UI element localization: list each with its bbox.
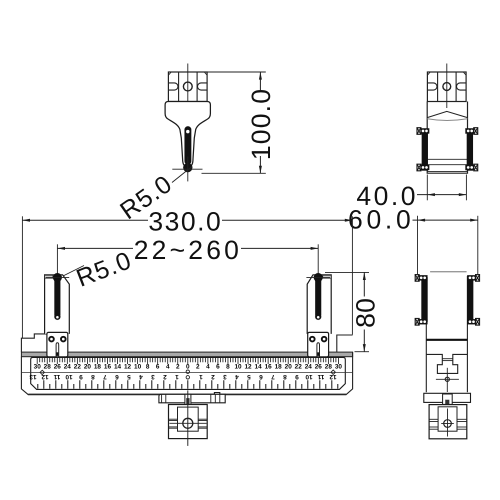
beam left jaw [21, 334, 46, 352]
side bracket thick line [426, 339, 467, 341]
svg-text:7: 7 [103, 373, 107, 380]
side bracket T-slot [426, 354, 467, 373]
post pin bottom hole [56, 316, 59, 319]
svg-text:14: 14 [255, 364, 263, 371]
side bracket base block [429, 405, 467, 439]
dim 60.0 extension line left [417, 216, 419, 275]
svg-text:2: 2 [163, 373, 167, 380]
side view bottom plate lines [427, 158, 467, 160]
side foot bottom-right [476, 319, 480, 326]
dim 330.0 line and arrows [22, 219, 148, 221]
post pin crosshair [306, 277, 330, 279]
post body left [45, 275, 70, 334]
svg-text:28: 28 [325, 364, 333, 371]
svg-text:4: 4 [139, 373, 143, 380]
rail foot bottom-right [474, 164, 478, 171]
leader R5.0 posts [49, 266, 84, 284]
post top tab left [45, 275, 53, 278]
leader R5.0 top [172, 167, 192, 183]
bracket circle front [183, 418, 193, 428]
dim 330.0 extension line left [21, 216, 23, 338]
pin slot top hole [186, 130, 189, 133]
post pin crosshair [46, 277, 70, 279]
ruler top scale ticks [37, 358, 338, 364]
svg-text:30: 30 [335, 364, 343, 371]
svg-text:12: 12 [124, 364, 132, 371]
svg-text:11: 11 [317, 373, 324, 380]
dim 22~260 extension line left [56, 244, 58, 277]
svg-text:26: 26 [54, 364, 62, 371]
svg-text:3: 3 [151, 373, 155, 380]
beam top band (gray) [21, 352, 352, 357]
post base holes [310, 337, 315, 342]
svg-text:13: 13 [29, 373, 37, 380]
clamp slide pin slot (black) [185, 126, 192, 165]
svg-text:2: 2 [196, 364, 200, 371]
svg-text:4: 4 [235, 373, 239, 380]
svg-text:5: 5 [247, 373, 251, 380]
bracket flange bar front [159, 393, 225, 403]
side view head inner columns [437, 72, 439, 102]
dim 40.0 line and arrows [417, 194, 466, 196]
clamp head left notch [168, 83, 178, 90]
side view head right notch [457, 83, 467, 90]
bracket right grooves front [198, 418, 207, 420]
clamp head corner chamfers [168, 72, 171, 75]
svg-text:22: 22 [295, 364, 303, 371]
dim 80 line and arrows [363, 272, 365, 296]
dim 40.0 extension lines [426, 175, 428, 201]
bracket screw tab front [185, 394, 191, 404]
dim 80 extension line bottom [355, 351, 370, 353]
side bracket screw tab [443, 394, 453, 404]
post pin bottom hole [317, 316, 320, 319]
ruler center ring upper [186, 370, 189, 373]
svg-text:8: 8 [91, 373, 95, 380]
rail bar left (side view top) [422, 130, 428, 171]
svg-text:8: 8 [226, 364, 230, 371]
svg-text:9: 9 [295, 373, 299, 380]
clamp head body front [168, 72, 207, 102]
bracket flange notch lines [161, 394, 163, 403]
svg-text:3: 3 [223, 373, 227, 380]
post pin (black) [54, 275, 60, 316]
svg-text:20: 20 [285, 364, 293, 371]
svg-text:11: 11 [53, 373, 60, 380]
post pin (black) [315, 275, 321, 316]
side foot top-left [415, 275, 419, 282]
dim 100.0 extension line top [207, 71, 266, 73]
dim 100.0 line and arrows [259, 72, 261, 90]
clamp head screw hole front [183, 82, 192, 91]
side bracket left grooves [429, 418, 438, 420]
beam right jaw [337, 335, 353, 352]
dim 60.0 line and arrows [413, 219, 478, 221]
svg-text:18: 18 [275, 364, 283, 371]
side bracket base crosshair [441, 423, 454, 425]
svg-text:1: 1 [199, 373, 203, 380]
dim 330.0 extension line right [351, 216, 353, 334]
side foot top-right [476, 275, 480, 282]
bracket left grooves front [169, 418, 178, 420]
side bracket flange [424, 393, 471, 402]
post top tab right [323, 275, 332, 278]
svg-text:10: 10 [305, 373, 313, 380]
post base slot [56, 343, 59, 357]
svg-text:60.0: 60.0 [348, 204, 414, 234]
svg-text:8: 8 [283, 373, 287, 380]
svg-text:10: 10 [65, 373, 73, 380]
post base left [47, 332, 68, 356]
side bracket top bar (gray) [430, 271, 467, 273]
svg-text:12: 12 [244, 364, 252, 371]
post base slot [317, 343, 320, 357]
svg-text:18: 18 [94, 364, 102, 371]
side view head screw hole [443, 83, 451, 91]
side foot bottom-left [415, 319, 419, 326]
svg-text:16: 16 [265, 364, 273, 371]
side bracket base circle [444, 420, 452, 428]
ruler bottom scale ticks [38, 380, 338, 389]
svg-text:100.0: 100.0 [246, 88, 276, 160]
dim 22~260 extension line right [317, 244, 319, 277]
svg-text:4: 4 [166, 364, 170, 371]
ruler top scale numbers [34, 364, 343, 371]
dim 60.0 extension line right [477, 216, 479, 275]
svg-text:24: 24 [64, 364, 72, 371]
svg-text:330.0: 330.0 [148, 206, 222, 236]
svg-text:7: 7 [271, 373, 275, 380]
svg-text:2: 2 [176, 364, 180, 371]
rail bar right (side view bottom) [467, 277, 473, 322]
svg-text:28: 28 [44, 364, 52, 371]
clamp head right notch [198, 83, 208, 90]
svg-text:26: 26 [315, 364, 323, 371]
post body right [307, 275, 331, 334]
beam body sides [21, 352, 352, 395]
side view body outline [427, 102, 467, 174]
dim 22~260 line and arrows [57, 247, 133, 249]
svg-text:30: 30 [34, 364, 42, 371]
svg-text:20: 20 [84, 364, 92, 371]
svg-text:10: 10 [134, 364, 142, 371]
svg-text:2: 2 [211, 373, 215, 380]
svg-text:16: 16 [104, 364, 112, 371]
side bracket small circle [445, 377, 449, 381]
svg-text:6: 6 [259, 373, 263, 380]
side view head left notch [427, 83, 437, 90]
ruler center ring lower [186, 376, 189, 379]
svg-text:10: 10 [234, 364, 242, 371]
svg-text:22: 22 [74, 364, 82, 371]
stem tip crosshair [172, 168, 202, 170]
svg-text:80: 80 [350, 298, 380, 328]
svg-text:6: 6 [156, 364, 160, 371]
rail foot top-left [417, 128, 421, 135]
svg-text:24: 24 [305, 364, 313, 371]
post base right [308, 332, 329, 356]
ruler left diamond marker [40, 370, 44, 374]
side bracket inner rect [438, 407, 457, 431]
centerline clamp front view [187, 64, 189, 131]
clamp body flange and stem outline [165, 102, 210, 168]
rail foot top-right [474, 128, 478, 135]
side view chevron spring [427, 111, 467, 117]
svg-text:8: 8 [146, 364, 150, 371]
svg-text:14: 14 [114, 364, 122, 371]
side view head corner chamfers [427, 72, 430, 75]
side bracket body sides [425, 276, 427, 392]
bracket block front [169, 405, 208, 439]
rail foot bottom-left [417, 164, 421, 171]
svg-text:5: 5 [127, 373, 131, 380]
rail bar right (side view top) [467, 130, 473, 171]
svg-text:0: 0 [186, 364, 190, 371]
dim 80 extension line top [325, 271, 369, 273]
centerline side view top [446, 64, 448, 109]
side bracket crosshair [436, 378, 459, 380]
svg-text:6: 6 [216, 364, 220, 371]
side view head body [427, 72, 466, 102]
ruler bottom scale numbers (flipped) [29, 373, 337, 380]
svg-text:4: 4 [206, 364, 210, 371]
ruler mid line [21, 371, 352, 373]
ruler plate [31, 357, 346, 389]
side bracket T-slot neck lines [442, 358, 453, 360]
svg-text:1: 1 [175, 373, 179, 380]
post base holes [49, 337, 54, 342]
bracket crosshair front [170, 422, 207, 424]
svg-text:9: 9 [79, 373, 83, 380]
clamp head inner column lines [178, 72, 180, 102]
dim 100.0 extension line bottom [202, 172, 266, 174]
bracket inner rect front [178, 407, 199, 431]
side bracket right grooves [457, 418, 467, 420]
svg-text:22~260: 22~260 [134, 235, 242, 265]
svg-text:6: 6 [115, 373, 119, 380]
rail bar left (side view bottom) [421, 277, 427, 322]
beam bottom edge [28, 393, 346, 395]
ruler right diamond marker [331, 370, 335, 374]
